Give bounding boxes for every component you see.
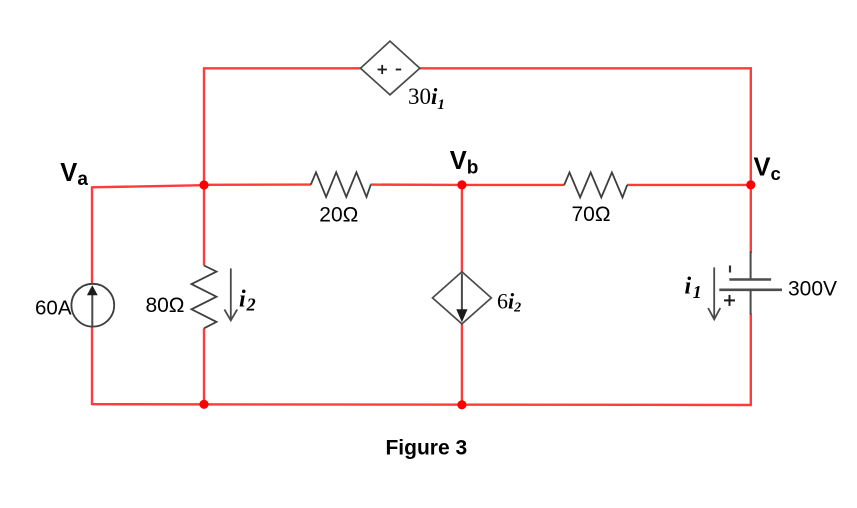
- resistor 20 ohm zigzag: [311, 172, 371, 197]
- dependent voltage source 30i1 diamond: [361, 41, 420, 95]
- wire top rail left segment: [204, 67, 361, 69]
- svg-text:80Ω: 80Ω: [145, 294, 184, 317]
- junction dot bottom rail below node A: [199, 400, 208, 409]
- wire right vertical Vc to top rail: [750, 67, 752, 185]
- wire 80ohm resistor to bottom rail: [203, 328, 205, 404]
- arrow inside 60A current source: [87, 285, 98, 326]
- wire dependent current source to bottom rail: [461, 323, 463, 404]
- dependent current source 6i2 diamond: [433, 272, 492, 324]
- junction node A dot (Va column): [199, 180, 208, 189]
- wire battery to bottom rail: [750, 314, 752, 406]
- wire 20ohm to node Vb: [371, 183, 462, 186]
- wire Va corner to node A: [92, 185, 204, 187]
- resistor 80 ohm zigzag: [192, 266, 217, 329]
- minus sign inside dependent voltage source: [396, 69, 402, 71]
- wire top rail right segment: [420, 67, 752, 69]
- wire left vertical of top loop: [203, 67, 205, 185]
- junction dot bottom rail below node Vb: [457, 400, 466, 409]
- junction node Vc dot: [746, 180, 755, 189]
- junction node Vb dot: [457, 180, 466, 189]
- battery 300V bottom plate with leader: [719, 288, 782, 291]
- current source 60A circle: [71, 284, 114, 327]
- plus sign below battery bottom plate: [724, 295, 735, 306]
- current arrow i2 (open arrowhead, downward): [224, 268, 237, 320]
- wire node A down to 80ohm resistor: [203, 185, 205, 266]
- current arrow i1 (open arrowhead, downward): [708, 267, 720, 319]
- wire node Vb to 70ohm resistor: [462, 184, 565, 186]
- svg-text:Figure 3: Figure 3: [385, 437, 467, 460]
- arrow inside dependent current source: [456, 274, 467, 323]
- wire node A to 20ohm resistor: [204, 183, 311, 186]
- battery 300V top lead: [750, 252, 752, 280]
- svg-text:60A: 60A: [35, 297, 72, 320]
- wire node Vc down to battery: [750, 185, 752, 253]
- svg-text:70Ω: 70Ω: [571, 203, 610, 226]
- wire node Vb down to dependent current source: [461, 185, 463, 272]
- wire left branch below current source: [91, 326, 93, 405]
- svg-text:300V: 300V: [788, 278, 837, 301]
- wire bottom rail: [92, 403, 752, 406]
- wire left branch above current source: [91, 186, 93, 284]
- svg-text:20Ω: 20Ω: [319, 203, 358, 226]
- wire 70ohm to node Vc: [627, 184, 751, 186]
- minus tick above battery top plate: [729, 266, 731, 273]
- battery 300V bottom lead: [750, 290, 752, 315]
- plus sign inside dependent voltage source: [378, 65, 387, 74]
- battery 300V top plate: [729, 278, 771, 281]
- resistor 70 ohm zigzag: [564, 172, 627, 197]
